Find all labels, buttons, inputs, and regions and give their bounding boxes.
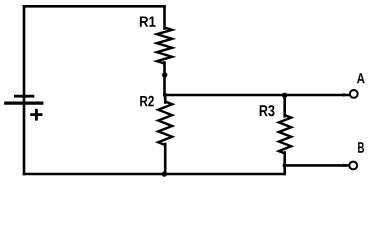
wire R3 bottom lead [283, 153, 286, 175]
junction dot wire B end [342, 164, 345, 167]
terminal A circle [350, 90, 358, 98]
wire top [24, 5, 165, 8]
label B [358, 142, 364, 153]
battery V1 bottom plate [4, 101, 43, 104]
junction dot R3 top [282, 93, 287, 98]
battery plus sign [30, 109, 42, 121]
wire R1 top lead [163, 6, 166, 28]
wire node A horizontal [165, 94, 350, 97]
wire node B horizontal [285, 164, 349, 167]
wire R3 top lead [283, 95, 286, 116]
label A [357, 73, 365, 83]
wire left [23, 6, 26, 174]
wire R1 bottom lead to node [163, 63, 166, 96]
resistor R3 [279, 115, 291, 153]
resistor R1 [157, 28, 172, 64]
label R3 [260, 105, 275, 116]
label R1 [140, 17, 156, 27]
junction dot node A tee [163, 93, 167, 97]
resistor R2 [158, 102, 172, 146]
wire R2 bottom lead [164, 144, 167, 174]
wire R2 top lead [164, 95, 167, 103]
terminal B circle [349, 162, 357, 170]
label R2 [140, 96, 154, 107]
junction dot wire A end [342, 93, 345, 96]
battery V1 top plate [14, 95, 34, 98]
wire bottom [24, 173, 284, 176]
junction dot R2 bottom [162, 171, 167, 176]
junction dot R3 node B [283, 163, 287, 167]
junction dot R1 bottom [162, 72, 167, 77]
